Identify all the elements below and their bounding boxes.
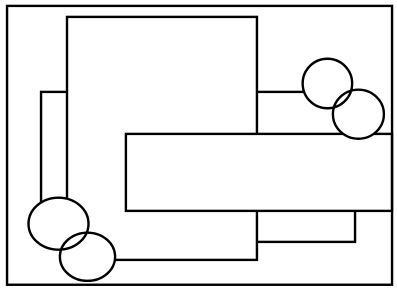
horizontal rectangle R3	[126, 134, 392, 211]
circle C1 outline	[303, 59, 353, 109]
circle C2 outline	[333, 90, 384, 139]
circle C4 outline	[60, 233, 115, 281]
circle C3 fill	[29, 198, 89, 250]
circle C2 fill	[333, 90, 384, 139]
tall rectangle R2	[67, 17, 257, 260]
circle C3 outline	[29, 198, 89, 250]
circle C1 fill	[303, 59, 353, 109]
circle C4 fill	[60, 233, 115, 281]
wide rectangle R1 (behind)	[41, 92, 355, 242]
